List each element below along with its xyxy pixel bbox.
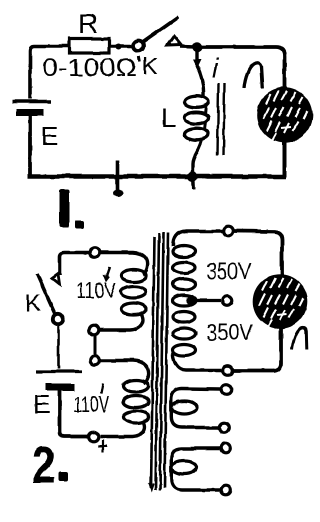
primary winding 1 loop 1 [121, 270, 146, 282]
terminal: center tap [223, 296, 233, 306]
wire: center tap to terminal [191, 299, 221, 302]
HV winding loop 6 [173, 328, 196, 339]
tick mark after ohm [139, 56, 140, 62]
transformer core line 1 [151, 237, 155, 489]
inductor coil connector 2-3 [205, 121, 206, 130]
center tap dot [186, 296, 195, 305]
switch K1 fixed contact triangle [168, 37, 182, 46]
svg-text:E: E [33, 389, 50, 419]
battery E2 short thick plate [46, 384, 75, 391]
terminal: filament A top [222, 385, 232, 395]
wire: from battery bottom down to bottom-left corner [28, 116, 32, 176]
iron core of L (line 1) [218, 83, 219, 155]
wire: link between center terminals [94, 335, 97, 356]
transformer core line 2 [156, 233, 160, 490]
inductor L loop 1 [185, 96, 209, 108]
junction node dot (top of L) [192, 42, 202, 52]
terminal: filament A bottom [219, 423, 229, 433]
switch K1 pivot circle [134, 41, 144, 51]
ink blob on wire [116, 44, 122, 50]
lamp 1 body [257, 87, 313, 143]
primary winding 1 loop 3 [121, 303, 146, 315]
wire: winding 2 bottom out [100, 421, 145, 437]
junction tail tick [192, 178, 196, 189]
svg-text:K: K [25, 290, 41, 317]
wire: lamp 1 bottom to bottom wire [283, 141, 287, 177]
transformer core line 4 [165, 233, 169, 489]
iron core of L (line 2) [224, 83, 225, 155]
label lamp 1 (cursive L) [245, 63, 263, 88]
HV winding loop 3 [173, 279, 196, 290]
transformer core line 3 [160, 232, 164, 490]
terminal: HV top [223, 226, 233, 236]
terminal: winding 1 bottom [89, 325, 99, 335]
filament winding B loop [172, 461, 197, 474]
wire: lamp 2 bottom to HV bottom terminal [234, 328, 281, 371]
svg-text:350V: 350V [206, 319, 254, 345]
wire: contact to junction node [180, 45, 197, 49]
switch K2 fixed contact triangle [52, 274, 60, 285]
wire: winding 1 bottom out [100, 314, 143, 330]
wire: left vertical from top corner to battery E top plate [30, 46, 69, 99]
HV winding loop 5 [173, 312, 196, 323]
label lamp 2 (cursive L) [292, 327, 307, 350]
small plus tick near bottom terminal [101, 440, 103, 452]
wire: junction to top-right corner then down to lamp [197, 47, 285, 88]
battery E long plate [12, 100, 51, 103]
HV winding loop 7 [173, 345, 196, 356]
inductor coil connector 1-2 [205, 105, 206, 114]
primary winding 2 loop 2 [124, 396, 149, 408]
filament winding B top lead [171, 449, 220, 491]
svg-text:0-100Ω: 0-100Ω [42, 54, 137, 82]
svg-text:R: R [78, 8, 98, 39]
HV winding loop 1 [173, 246, 196, 257]
filament winding A top lead [171, 389, 221, 428]
terminal: HV bottom [223, 366, 233, 376]
wire: terminal into winding 1 [100, 253, 148, 275]
battery E2 long plate [36, 370, 82, 373]
switch K2 pivot circle [53, 314, 63, 324]
terminal: filament B top [221, 444, 231, 454]
figure label 1 [60, 190, 70, 229]
arrow accent over upper V [106, 267, 110, 279]
figure label 1 period [75, 221, 84, 230]
wire: coil bottom to bottom junction [193, 138, 203, 176]
filament winding A loop [172, 401, 197, 414]
primary winding 1 loop 2 [121, 286, 146, 298]
terminal: winding 2 top [90, 356, 100, 366]
wire: arrow to coil top [197, 66, 204, 96]
svg-text:2: 2 [32, 436, 56, 495]
accent over lower V [101, 383, 103, 394]
wire: HV top terminal to lamp 2 [233, 231, 282, 275]
bottom junction dot [188, 172, 198, 182]
svg-text:110V: 110V [76, 278, 116, 303]
lamp 2 body [253, 274, 308, 329]
primary winding 2 loop 1 [124, 380, 149, 392]
terminal: filament B bottom [221, 485, 231, 495]
current arrow i head [193, 60, 202, 70]
wire: terminal into winding 2 [100, 361, 149, 384]
terminal: winding 2 bottom [89, 432, 99, 442]
core line arrow tip [149, 483, 154, 490]
wire: HV winding bottom lead [173, 353, 222, 371]
wire: bottom terminal left then up to battery [60, 390, 88, 437]
svg-text:E: E [41, 121, 58, 151]
svg-text:350V: 350V [206, 258, 252, 284]
svg-text:i: i [212, 53, 219, 83]
wire: resistor to switch pivot [109, 44, 133, 47]
terminal: primary winding 1 top [90, 248, 100, 258]
svg-text:L: L [161, 103, 176, 133]
primary winding 2 loop 3 [124, 411, 149, 423]
switch K2 blade [37, 274, 55, 314]
HV winding loop 2 [173, 262, 196, 273]
resistor R box [69, 39, 109, 54]
inductor L loop 3 [185, 128, 209, 140]
svg-text:110V: 110V [73, 392, 109, 417]
current arrow i stem [195, 50, 198, 62]
inductor L loop 2 [185, 112, 209, 124]
wire: bottom horizontal of circuit 1 [28, 174, 286, 178]
switch K1 blade [143, 17, 179, 42]
wire: contact up to corner then right to terminal [60, 253, 89, 276]
HV winding loop 4 [173, 295, 196, 306]
svg-text:K: K [142, 53, 158, 80]
wire: HV winding top lead [173, 231, 222, 247]
wire: battery top to switch pivot [57, 325, 60, 369]
figure label 2 period [59, 472, 69, 482]
battery E short thick plate [17, 109, 44, 116]
stray tick crossing bottom wire [116, 160, 120, 196]
